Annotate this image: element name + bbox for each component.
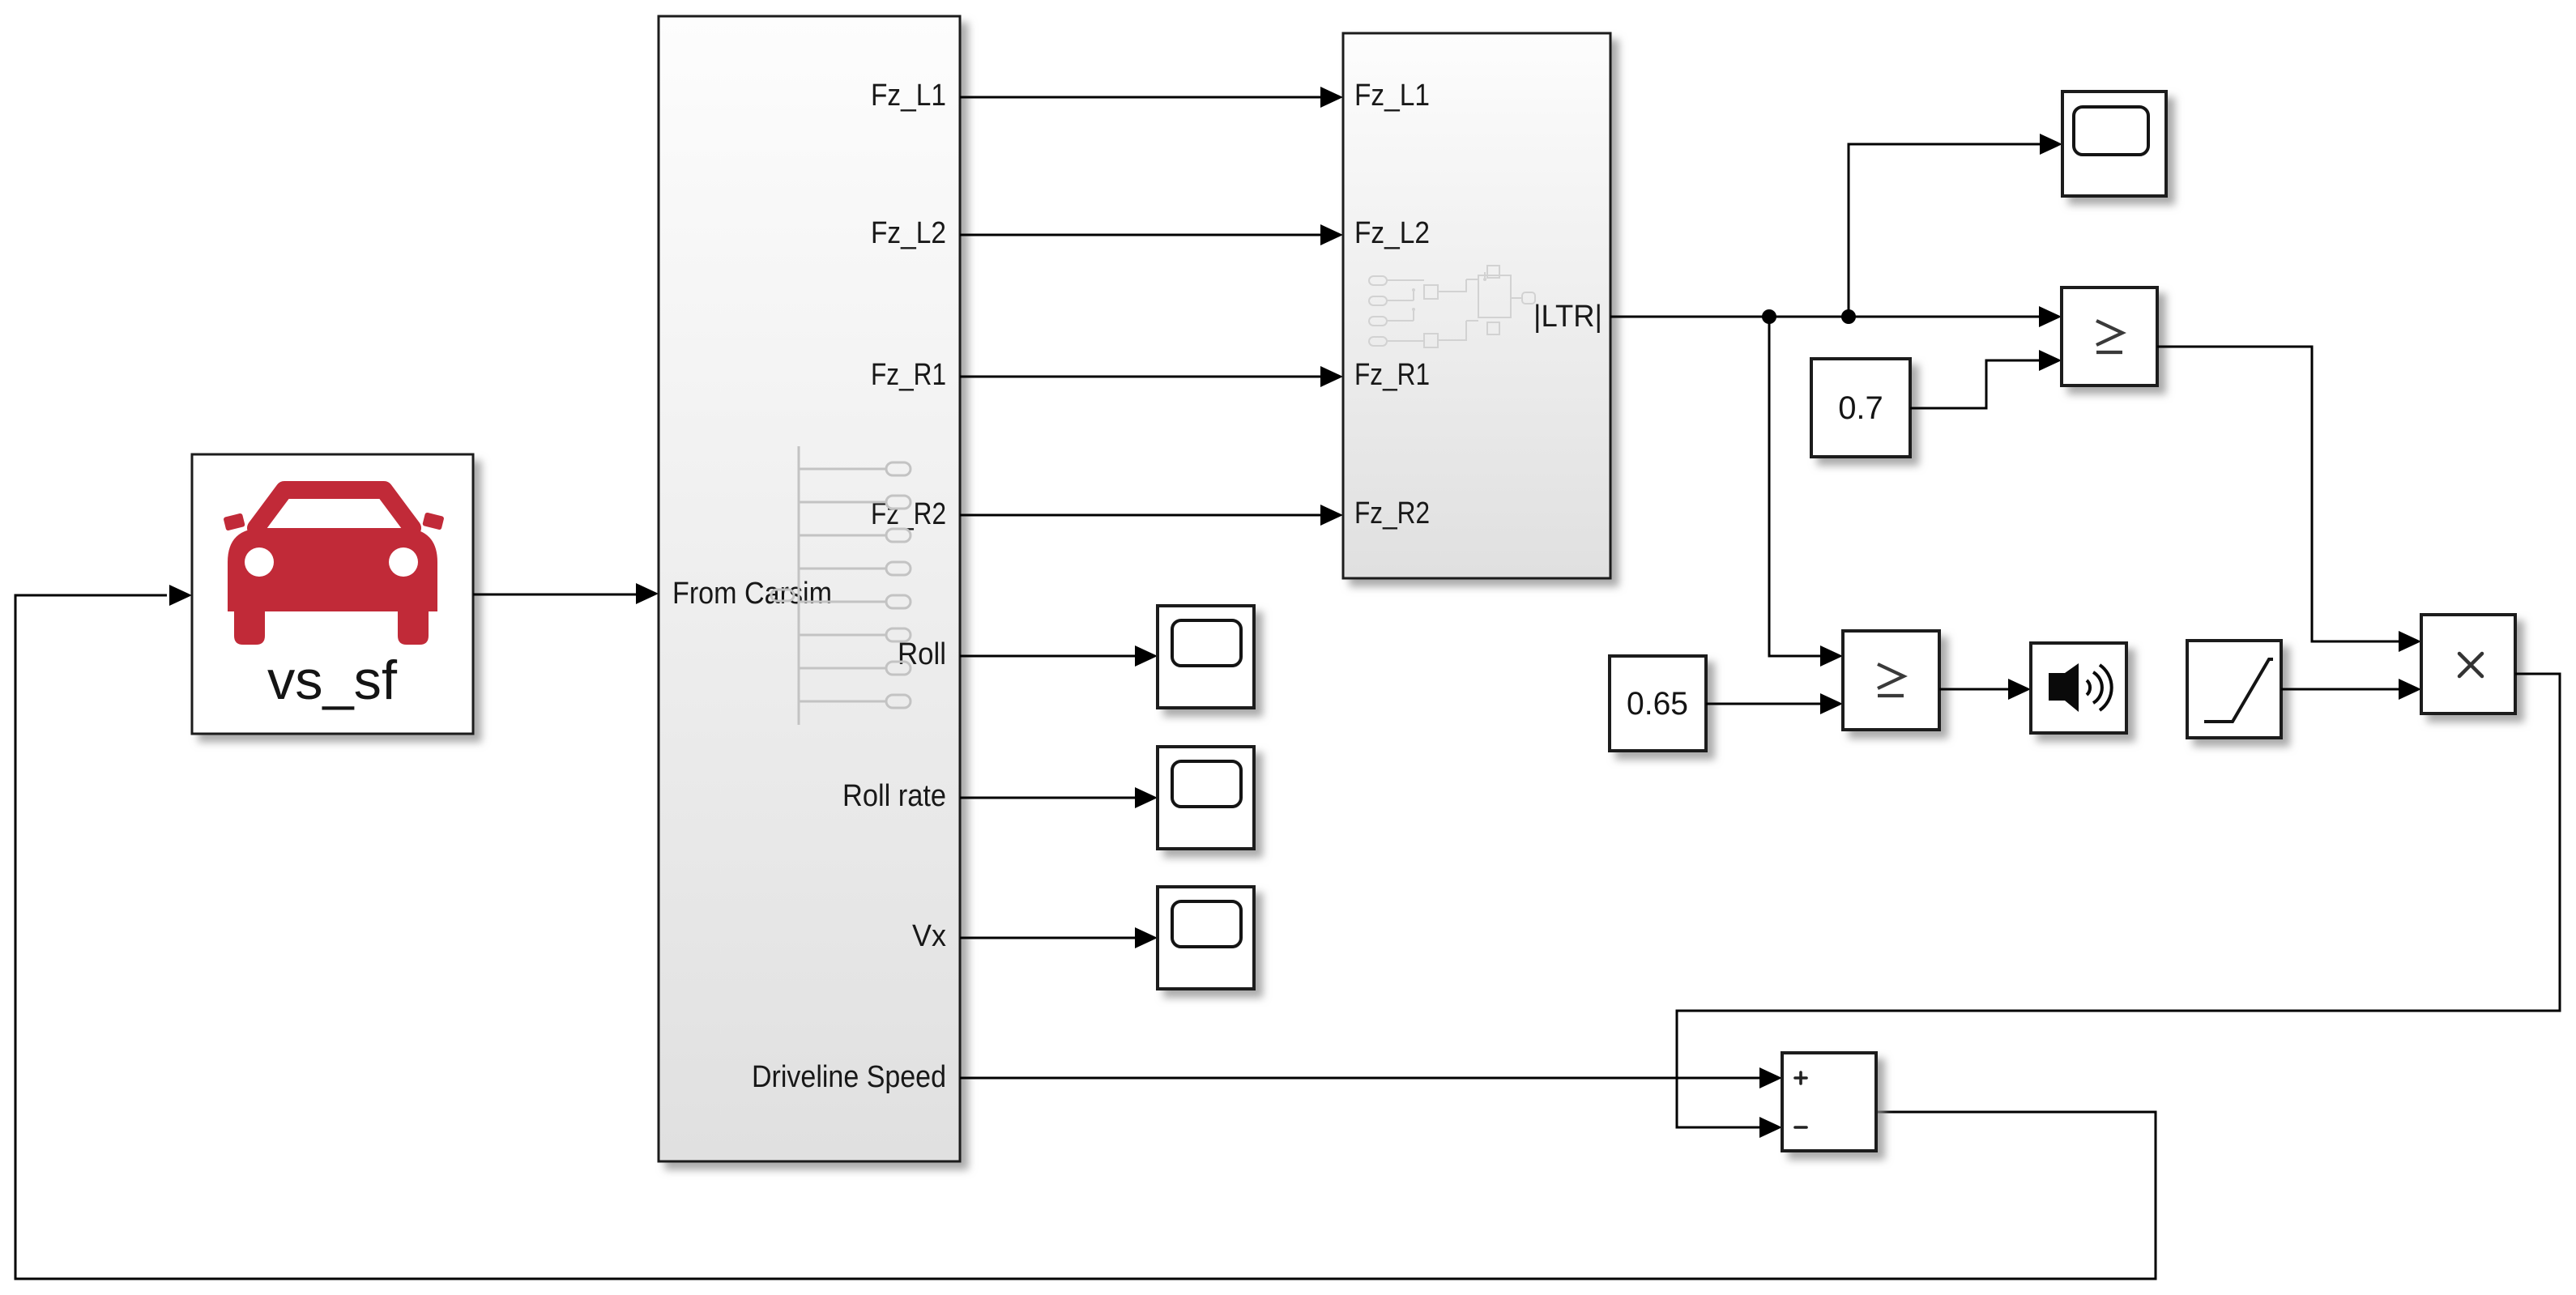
wire: >= (lower) output to speaker <box>1939 688 2008 691</box>
block saturation <box>2187 641 2281 738</box>
svg-text:|LTR|: |LTR| <box>1533 300 1602 334</box>
block relational operator >= (top) <box>2062 288 2157 386</box>
block speaker (sound sink) <box>2031 643 2126 733</box>
wire: 0.7 to >= (top) input 2 <box>1910 360 2039 408</box>
wire: Fz_R2 From Carsim to LTR <box>960 514 1320 517</box>
wire: LTR output to >= (top) with junctions <box>1610 316 2039 318</box>
block vs_sf (CarSim S-function) <box>192 454 473 734</box>
car icon left mirror <box>223 513 245 530</box>
svg-text:0.65: 0.65 <box>1627 686 1688 722</box>
car icon right wheel <box>398 611 429 645</box>
wire: feedback from Sum output around bottom-left up to vs_sf input <box>15 595 2156 1279</box>
arrowhead into vs_sf input <box>169 585 192 606</box>
wire: Driveline Speed to Sum input 1 (plus) <box>960 1077 1759 1080</box>
wire: Roll to scope1 <box>960 655 1135 658</box>
block constant 0.7 <box>1811 359 1910 457</box>
block relational operator >= (lower) <box>1843 631 1939 730</box>
car icon body <box>228 528 437 611</box>
wire: branch down to >= (lower) input 1 <box>1769 317 1820 656</box>
svg-text:0.7: 0.7 <box>1838 390 1883 426</box>
subsystem preview thumbnail (demux) <box>771 446 911 725</box>
svg-text:Vx: Vx <box>912 919 946 953</box>
wire: Fz_L2 From Carsim to LTR <box>960 234 1320 236</box>
arrowhead into From Carsim input <box>636 583 659 604</box>
block product x <box>2421 615 2515 714</box>
svg-text:Fz_R2: Fz_R2 <box>1354 496 1430 530</box>
wire: branch up to Scope <box>1849 144 2040 317</box>
block scope Roll rate <box>1158 747 1254 849</box>
junction dot at x2282 <box>1841 309 1856 324</box>
svg-text:Fz_L2: Fz_L2 <box>1354 216 1430 250</box>
car icon right mirror <box>422 512 444 530</box>
car icon left wheel <box>234 611 265 645</box>
car icon right headlight <box>389 547 418 577</box>
wire: Roll rate to scope2 <box>960 797 1135 799</box>
svg-text:Fz_R1: Fz_R1 <box>1354 358 1430 392</box>
svg-text:From Carsim: From Carsim <box>672 577 832 611</box>
svg-text:Driveline Speed: Driveline Speed <box>752 1060 946 1094</box>
car icon windshield/roof <box>256 490 412 528</box>
wire: saturation output to product input 2 <box>2281 688 2399 691</box>
block scope Roll <box>1158 606 1254 708</box>
block Scope (top right) <box>2062 92 2166 196</box>
junction dot at x2184 <box>1762 309 1776 324</box>
wire: >= (top) output to product input 1 <box>2157 347 2399 641</box>
svg-text:Roll rate: Roll rate <box>842 779 946 813</box>
svg-text:Fz_R1: Fz_R1 <box>871 358 946 392</box>
svg-text:Fz_L2: Fz_L2 <box>871 216 946 250</box>
block LTR subsystem <box>1343 33 1610 578</box>
wire: vs_sf output to From Carsim input <box>473 594 636 596</box>
svg-text:Fz_L1: Fz_L1 <box>1354 79 1430 113</box>
subsystem preview thumbnail <box>1369 266 1535 347</box>
block Sum (+ -) <box>1782 1053 1876 1151</box>
wire: Vx to scope3 <box>960 937 1135 939</box>
car icon left headlight <box>245 547 274 577</box>
block scope Vx <box>1158 887 1254 989</box>
svg-text:vs_sf: vs_sf <box>267 650 397 711</box>
wire: 0.65 to >= (lower) input 2 <box>1706 703 1820 705</box>
svg-text:Fz_L1: Fz_L1 <box>871 79 946 113</box>
wire: Fz_L1 From Carsim to LTR <box>960 96 1320 99</box>
wire: product output to Sum input 2 (minus) <box>1677 674 2560 1127</box>
block From Carsim (subsystem) <box>659 16 960 1161</box>
wire: Fz_R1 From Carsim to LTR <box>960 376 1320 378</box>
block constant 0.65 <box>1610 656 1706 751</box>
